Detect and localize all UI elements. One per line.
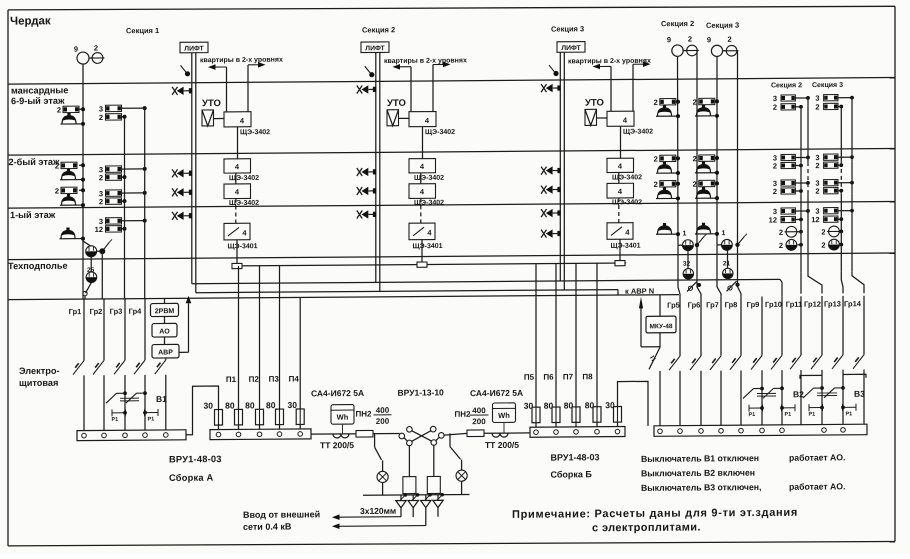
svg-text:2: 2: [99, 173, 103, 182]
socket group 12 far-right block 2 y=225.3: [824, 216, 838, 222]
wire: lift feeder double line section 3 (left): [559, 52, 561, 281]
svg-text:Секция 3: Секция 3: [812, 82, 843, 89]
svg-text:Р1: Р1: [809, 412, 816, 418]
wire H2: lift feeder tie line: [192, 279, 780, 283]
wire riser to cellar section 2: [421, 240, 423, 264]
svg-text:ЩЭ-3402: ЩЭ-3402: [240, 129, 270, 136]
lamp 2nd floor g2: [656, 197, 678, 199]
svg-text:ЩЭ-3402: ЩЭ-3402: [612, 199, 642, 206]
svg-text:Секция 2: Секция 2: [661, 19, 694, 28]
contactor В1: [123, 391, 127, 395]
wire through МКУ-48: [659, 295, 661, 317]
svg-text:ЩЭ-3402: ЩЭ-3402: [229, 200, 259, 207]
svg-text:2: 2: [99, 197, 103, 206]
switch blade group column x=843: [832, 355, 843, 369]
fuse 30/80 on column x=238.5: [238, 409, 240, 425]
wire riser П column x=259.5: [259, 266, 261, 410]
fuse ПН2 400/200 (left): [356, 430, 373, 437]
socket group 2 at y=201.8 feeding column x=124.5: [106, 198, 122, 205]
wire group column x=680 lower: [679, 371, 681, 426]
floor panel ЩЭ-3401 (1st floor) section 1 with breaker: [224, 223, 250, 240]
border frame top: [8, 3, 895, 13]
svg-text:1: 1: [722, 230, 726, 237]
wire: lift feeder double line section 1 (right): [195, 53, 197, 293]
svg-text:АО: АО: [159, 328, 170, 335]
wire riser П column x=556: [555, 264, 557, 408]
svg-text:УТО: УТО: [202, 98, 221, 109]
meter Wh (right): [493, 403, 516, 423]
svg-text:Wh: Wh: [337, 413, 349, 422]
current relay Р1 under Гр13: [842, 404, 844, 411]
svg-text:2: 2: [654, 154, 658, 163]
socket group 3 far-right block 2 y=188.8: [824, 180, 838, 186]
node: section 2 socket riser circle: [687, 45, 698, 56]
svg-text:2: 2: [654, 180, 658, 189]
socket group 3 far-right block 1 y=188.8: [781, 180, 795, 186]
wire riser section 3: [618, 172, 620, 183]
wire: section 2 riser A down: [677, 56, 680, 245]
svg-text:УТО: УТО: [387, 98, 406, 109]
fuse on column x=597: [596, 407, 598, 423]
svg-text:2: 2: [779, 241, 783, 250]
label 2 + socket attic (riser x=717): [699, 98, 715, 105]
wire riser jog to group column x=701: [697, 245, 701, 297]
wire: section 2 riser B down: [696, 51, 698, 245]
svg-text:МКУ-48: МКУ-48: [650, 323, 673, 330]
floor panel ЩЭ-3402 (2nd floor) section 2: [409, 184, 436, 199]
svg-text:Р1: Р1: [148, 417, 155, 423]
floor panel ЩЭ-3402 (6-9 floors) section 2: [409, 112, 436, 127]
switch blade on column x=84: [73, 361, 84, 375]
svg-text:Секция 3: Секция 3: [551, 24, 584, 33]
svg-text:ЩЭ-3401: ЩЭ-3401: [611, 243, 641, 250]
wire to busbar A: [124, 375, 126, 430]
wire УТО to floor panel section 1: [214, 118, 225, 120]
switch blade group column x=864: [853, 355, 864, 369]
wire group column x=843 lower: [842, 370, 844, 425]
junction box on H1 section 1: [232, 263, 242, 268]
svg-text:П8: П8: [582, 372, 593, 381]
switch blade on column x=165.8: [155, 360, 166, 374]
svg-text:21: 21: [723, 260, 731, 267]
wire group column x=701 lower: [700, 371, 702, 426]
svg-text:Электро-: Электро-: [19, 366, 60, 376]
wire group column x=721 lower: [720, 371, 722, 426]
wire socket tap to riser: [79, 108, 83, 110]
svg-text:ЛИФТ: ЛИФТ: [184, 45, 204, 52]
lamp 1st floor: [656, 233, 678, 235]
fuse 30/80 on column x=279.5: [279, 409, 281, 425]
cable termination 2: [427, 476, 440, 493]
busbar terminal: [123, 433, 128, 438]
busbar terminal: [277, 432, 282, 437]
wire: inner riser far-right block 1: [800, 107, 802, 162]
svg-text:П6: П6: [543, 373, 554, 382]
line: top of switchboard room: [8, 295, 679, 300]
wire riser jog to group column x=680: [678, 245, 680, 297]
wire riser section 3: [620, 126, 622, 158]
lamp 1st floor: [695, 233, 717, 235]
valve symbol section 1 at floor level y=193.5: [172, 188, 177, 196]
meter Wh (left): [331, 405, 354, 425]
wire to busbar A: [144, 375, 146, 430]
svg-text:УТО: УТО: [585, 97, 604, 108]
svg-text:Выключатель В1 отключен: Выключатель В1 отключен: [641, 453, 759, 464]
svg-text:Гр5: Гр5: [667, 301, 680, 310]
wire riser to cellar section 1: [236, 240, 238, 264]
switch blade on column x=125: [114, 360, 125, 374]
svg-text:2: 2: [693, 154, 697, 163]
meter 1st floor: [717, 244, 721, 246]
wire: section 3 riser A down: [716, 56, 718, 244]
heater unit УТО section 3 (box with V): [585, 109, 597, 125]
current relay Р1 under Гр9: [748, 405, 750, 412]
valve symbol section 1 at floor level y=92: [172, 87, 177, 95]
svg-text:2: 2: [821, 241, 825, 250]
svg-text:12: 12: [769, 215, 777, 224]
wire group column x=782 lower: [781, 370, 783, 425]
wire riser to cellar section 3: [619, 239, 621, 263]
busbar terminal: [739, 428, 744, 433]
svg-text:2: 2: [815, 102, 819, 111]
wire riser П column x=279.5: [279, 266, 281, 410]
wire: apartment feeder left arrow section 2: [399, 66, 412, 68]
svg-text:9: 9: [667, 35, 671, 44]
heater unit УТО section 2 (box with V): [387, 110, 399, 126]
wire to busbar A: [165, 375, 167, 430]
switch blade group column x=741: [730, 356, 741, 370]
wire columns Гр1-Гр4 from risers to switches: [83, 299, 85, 361]
contactor В3: [820, 386, 824, 390]
valve symbol section 2 at floor level y=193.5: [357, 187, 362, 195]
wire bend into МКУ output: [641, 346, 660, 348]
svg-text:Р1: Р1: [846, 411, 853, 417]
busbar terminal: [534, 430, 539, 435]
wire АВР output column: [165, 358, 167, 360]
wire riser П column x=238.5: [238, 266, 240, 410]
fuse 30/80 on column x=218.5: [218, 410, 220, 426]
wire: jog section2 outer riser to Гр12 column: [808, 272, 822, 294]
wire: inner riser far-right block 2: [840, 106, 842, 161]
socket group 3 at y=109.0 feeding column x=144.7: [106, 105, 122, 112]
fuse on column x=556: [555, 407, 557, 423]
wire group column x=680 upper: [679, 297, 681, 356]
wire riser section 2: [420, 173, 422, 184]
svg-text:работает АО.: работает АО.: [789, 452, 845, 462]
label 2 + socket 2nd floor group 1: [61, 162, 77, 169]
svg-text:3х120мм: 3х120мм: [360, 506, 396, 516]
label 2 + socket 2nd floor group 2: [61, 187, 77, 194]
fuse 30/80 on column x=259.5: [259, 409, 261, 425]
svg-text:к АВР N: к АВР N: [625, 286, 654, 295]
wire switch bottom 2 to termination: [433, 445, 435, 476]
wire: jog section3 outer riser to Гр14 column: [852, 272, 864, 294]
svg-text:30: 30: [204, 401, 214, 411]
wire: section 1 lighting riser (stem down): [82, 64, 84, 250]
current relay Р1 (right): [144, 409, 146, 416]
svg-text:работает АО.: работает АО.: [789, 481, 845, 491]
node: section 3 lighting riser circle: [711, 45, 722, 56]
junction dot and lever on second riser: [735, 243, 739, 247]
floor panel ЩЭ-3401 (1st floor) section 3 with breaker: [607, 223, 633, 240]
svg-text:АВР: АВР: [158, 349, 173, 356]
wire circle link: [89, 57, 93, 59]
lever below meter 21: [727, 281, 737, 291]
wire H3: lift feeder tie line 2: [196, 290, 618, 293]
wire group column x=762 lower: [761, 370, 763, 425]
svg-text:32: 32: [683, 261, 691, 268]
floor divider line: above cellar (tehpodpolye): [8, 253, 895, 260]
floor divider line: attic / mansard 6-9: [8, 77, 895, 84]
wire: H2 end drop to Гр10 column: [780, 279, 782, 296]
svg-text:П7: П7: [563, 372, 574, 381]
socket group 3 far-right block 2 y=216.8: [824, 208, 838, 214]
meter 21 cellar section 3: [727, 250, 729, 268]
switch blade group column x=721: [710, 356, 721, 370]
svg-text:Ввод от внешней: Ввод от внешней: [243, 509, 320, 520]
wire МКУ column to busbar: [659, 371, 661, 426]
changeover switch blade 1: [412, 431, 432, 442]
svg-text:ЩЭ-3402: ЩЭ-3402: [425, 129, 455, 136]
busbar terminal: [780, 428, 785, 433]
svg-text:2: 2: [693, 98, 697, 107]
busbar terminal: [658, 429, 663, 434]
svg-text:200: 200: [376, 417, 390, 426]
cable entry arrow 2: [416, 493, 420, 497]
wire: section 3 riser B down: [737, 51, 739, 245]
current relay Р1 under Гр12: [808, 404, 810, 411]
lamp 2nd floor g2: [695, 197, 717, 199]
switch blade group column x=801: [790, 355, 801, 369]
label 2 + socket 2nd floor g2: [699, 180, 715, 187]
svg-text:Гр12: Гр12: [804, 300, 821, 309]
cable termination 1: [403, 477, 416, 494]
svg-text:Гр13: Гр13: [824, 299, 841, 308]
svg-text:ЛИФТ: ЛИФТ: [561, 45, 581, 52]
valve symbol section 2 at floor level y=174.5: [357, 168, 362, 176]
svg-text:Сборка А: Сборка А: [169, 473, 213, 483]
wire УТО to floor panel section 3: [597, 117, 608, 119]
busbar terminal: [719, 428, 724, 433]
wire Гр2 column from meter down: [101, 251, 103, 299]
svg-text:Гр10: Гр10: [765, 300, 782, 309]
wire group column x=762 upper: [761, 296, 763, 355]
svg-text:400: 400: [472, 406, 486, 415]
socket group 3 at y=193.8 feeding column x=144.7: [106, 190, 122, 197]
wire riser (dashed) section 2: [420, 198, 422, 223]
floor panel ЩЭ-3402 (6-9 floors) section 1: [224, 112, 251, 127]
socket group 3 at y=169.8 feeding column x=144.7: [106, 166, 122, 173]
svg-text:1: 1: [683, 230, 687, 237]
busbar П1-П4: [210, 429, 311, 440]
svg-text:2: 2: [55, 161, 59, 170]
wire: jog section2 inner riser to Гр11 column: [800, 272, 802, 294]
current transformer ТТ 200/5 (left): [333, 434, 341, 438]
wire link: [683, 50, 686, 52]
busbar terminal: [236, 432, 241, 437]
switch blade on column x=104: [93, 360, 104, 374]
socket group 2 far-right block 1 y=112.6: [781, 104, 795, 110]
junction box on H1 section 2: [417, 262, 427, 267]
wire riser jog to group column x=721: [717, 245, 721, 297]
wire АО to АВР: [164, 337, 166, 345]
label 2 + socket attic (riser x=678): [660, 99, 676, 106]
floor panel ЩЭ-3402 (2nd floor) section 1: [224, 184, 251, 199]
wire riser jog to group column x=741: [738, 245, 742, 297]
svg-text:200: 200: [472, 417, 486, 426]
node: section 2 lighting riser circle: [672, 45, 683, 56]
switch blade on column x=145: [134, 360, 145, 374]
wire to busbar A: [103, 375, 105, 430]
border frame bottom: [8, 539, 895, 548]
changeover link left: [404, 438, 407, 441]
wire group column x=782 upper: [781, 296, 783, 355]
svg-text:2: 2: [57, 105, 61, 114]
svg-text:ВРУ1-48-03: ВРУ1-48-03: [169, 454, 222, 464]
svg-text:Примечание: Расчеты даны для 9: Примечание: Расчеты даны для 9-ти эт.зда…: [512, 507, 798, 521]
svg-text:ПН2: ПН2: [356, 409, 373, 418]
supply line 1 with arrow: [338, 516, 401, 518]
svg-text:сети 0.4 кВ: сети 0.4 кВ: [243, 522, 292, 532]
cable entry arrow 1: [403, 493, 407, 497]
floor panel ЩЭ-3402 (2nd floor) section 3: [607, 183, 634, 198]
svg-text:Гр9: Гр9: [747, 300, 760, 309]
svg-text:Сборка Б: Сборка Б: [551, 469, 593, 479]
busbar assembly A: [77, 430, 186, 441]
socket group 2 at y=117.5 feeding column x=124.5: [106, 114, 122, 121]
wire group column x=801 upper: [800, 296, 802, 355]
floor panel ЩЭ-3401 (1st floor) section 2 with breaker: [409, 223, 435, 240]
svg-text:2: 2: [99, 113, 103, 122]
busbar terminal: [841, 428, 846, 433]
svg-text:Гр6: Гр6: [688, 300, 701, 309]
svg-text:Секция 1: Секция 1: [126, 26, 159, 35]
wire УТО to floor panel section 2: [399, 117, 410, 119]
svg-text:ЩЭ-3402: ЩЭ-3402: [414, 175, 444, 182]
valve symbol section 3 at floor level y=92: [541, 84, 546, 92]
wire switch to right fuse: [444, 433, 467, 435]
svg-text:П2: П2: [249, 375, 260, 384]
wire: АВР feed arrow to МКУ-48: [640, 305, 642, 347]
wire riser section 1: [235, 173, 237, 184]
busbar terminal: [574, 430, 579, 435]
valve symbol section 3 at floor level y=217: [541, 209, 546, 217]
supply line 2 with arrow: [338, 525, 426, 528]
socket group 3 far-right block 2 y=103.8: [824, 95, 838, 101]
lever below meter 32: [687, 281, 697, 291]
svg-text:400: 400: [376, 406, 390, 415]
label 2 + socket 2nd floor g2: [660, 181, 676, 188]
svg-text:П4: П4: [289, 374, 300, 383]
lamp 2nd floor g1: [695, 172, 717, 174]
svg-text:ТТ 200/5: ТТ 200/5: [320, 440, 354, 450]
label 2 + socket 2nd floor g1: [699, 155, 715, 162]
svg-text:ЩЭ-3402: ЩЭ-3402: [414, 200, 444, 207]
wire switch bottom 1 to termination: [408, 446, 410, 477]
wire: lift feeder double line section 3 (right): [563, 52, 565, 290]
wire riser section 2: [422, 127, 424, 159]
valve symbol section 2 at floor level y=217: [357, 210, 362, 218]
svg-text:2: 2: [815, 161, 819, 170]
busbar terminal: [164, 433, 169, 438]
svg-text:2-бый этаж: 2-бый этаж: [9, 157, 60, 167]
wire H1: cellar tie line between section risers: [237, 263, 626, 266]
svg-text:Секция 2: Секция 2: [771, 82, 802, 89]
relay box 2РВМ: [151, 303, 179, 316]
svg-text:Р1: Р1: [749, 412, 756, 418]
floor divider line: above 1st floor: [8, 201, 895, 208]
svg-text:Гр2: Гр2: [90, 307, 103, 316]
busbar terminal: [699, 429, 704, 434]
label 2 + socket 2nd floor g1: [660, 155, 676, 162]
meter (1st floor, section 1): [83, 239, 91, 247]
wire group column x=801 lower: [800, 370, 802, 425]
valve symbol section 3 at floor level y=193.5: [541, 186, 546, 194]
svg-text:В2: В2: [793, 389, 804, 399]
wire riser П column x=576: [575, 263, 577, 407]
wire group column x=843 upper: [842, 296, 844, 355]
junction box on H1 section 3: [615, 261, 625, 266]
valve symbol section 1 at floor level y=217: [172, 212, 177, 220]
svg-text:2: 2: [693, 180, 697, 189]
busbar terminal: [82, 433, 87, 438]
current relay Р1 under Гр10: [781, 404, 783, 411]
wire: apartment feeder right arrow section 1: [248, 64, 260, 66]
svg-text:80: 80: [266, 400, 276, 410]
svg-text:Выключатель В3 отключен,: Выключатель В3 отключен,: [641, 482, 761, 493]
svg-text:ЩЭ-3401: ЩЭ-3401: [413, 243, 443, 250]
wire: outer riser far-right block 2: [851, 98, 853, 162]
control box МКУ-48: [646, 316, 676, 333]
fuse on column x=617.5: [617, 407, 619, 423]
svg-text:9: 9: [707, 35, 711, 44]
lift box ЛИФТ section 1: [180, 42, 208, 53]
switch blade group column x=822: [811, 355, 822, 369]
meter 25A cellar section 1: [90, 257, 92, 272]
lamp 2nd floor g1: [656, 172, 678, 174]
svg-text:2: 2: [654, 98, 658, 107]
svg-text:ЛИФТ: ЛИФТ: [365, 45, 385, 52]
svg-text:Гр14: Гр14: [844, 299, 862, 308]
svg-text:9: 9: [74, 45, 78, 54]
lift box ЛИФТ section 3: [557, 42, 585, 53]
wire riser section 1: [237, 127, 239, 159]
fuse 30/80 on column x=300.2: [299, 409, 301, 425]
switch lever with dot on lift feeder section 2: [365, 66, 371, 74]
valve symbol section 2 at floor level y=92: [357, 85, 362, 93]
wire: lift feeder double line section 1 (left): [191, 53, 193, 284]
heater unit УТО section 1 (box with V): [202, 110, 214, 126]
switch lever with dot on lift feeder section 3: [549, 65, 555, 73]
fuse ПН2 400/200 (right): [467, 430, 484, 437]
meter 1st floor: [678, 244, 682, 246]
floor panel ЩЭ-3402 (3rd floor) section 3: [607, 158, 634, 172]
valve symbol section 3 at floor level y=237.5: [541, 230, 546, 238]
wire: column Гр3 riser: [124, 117, 126, 299]
wire group column x=741 lower: [740, 370, 742, 425]
wire group column x=822 lower: [821, 370, 823, 425]
svg-text:ЩЭ-3402: ЩЭ-3402: [623, 129, 653, 136]
svg-text:В3: В3: [854, 389, 865, 399]
socket group 2 far-right block 2 y=196.8: [824, 188, 838, 194]
label 2 (attic floor socket): [63, 106, 79, 113]
box АВР: [152, 344, 179, 358]
wire group column x=741 upper: [740, 297, 742, 356]
switch blade group column x=782: [771, 355, 782, 369]
wire: apartment feeder left arrow section 1: [214, 66, 227, 68]
svg-text:2: 2: [94, 43, 98, 52]
svg-text:Гр3: Гр3: [110, 307, 123, 316]
